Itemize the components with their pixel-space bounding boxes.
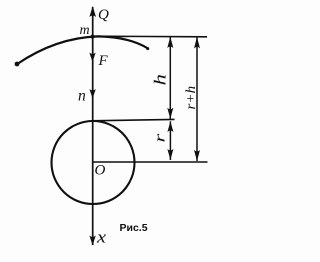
wire: main vertical axis line bbox=[92, 7, 94, 245]
arc: planet surface curve bbox=[17, 36, 149, 64]
wire: center horizontal reference line bbox=[92, 161, 208, 163]
svg-text:Q: Q bbox=[98, 7, 109, 23]
dot: arc right endpoint bbox=[146, 47, 149, 50]
svg-text:Рис.5: Рис.5 bbox=[120, 222, 148, 234]
svg-text:r+h: r+h bbox=[183, 86, 198, 110]
svg-text:O: O bbox=[95, 163, 106, 179]
dimension line r (vertical) bbox=[169, 121, 171, 160]
dimension line h (vertical) bbox=[169, 37, 171, 119]
svg-text:n: n bbox=[78, 88, 86, 105]
svg-text:x: x bbox=[96, 228, 107, 247]
svg-text:r: r bbox=[152, 133, 168, 142]
svg-text:h: h bbox=[151, 74, 170, 85]
wire: top horizontal reference line bbox=[92, 35, 208, 38]
arrow F (down arrowhead) bbox=[89, 53, 95, 63]
arrow x (down arrowhead at bottom) bbox=[89, 236, 95, 246]
node m: junction dot on axis bbox=[91, 35, 95, 39]
svg-text:F: F bbox=[98, 53, 109, 69]
wire: circle-top horizontal reference line bbox=[91, 119, 175, 120]
dimension line r+h (vertical) bbox=[196, 37, 198, 161]
dot: arc left endpoint blob bbox=[15, 62, 20, 67]
circle: planet bbox=[52, 121, 135, 204]
arrow Q (up arrowhead at top) bbox=[89, 6, 96, 17]
arrow n (down arrowhead) bbox=[89, 89, 95, 99]
svg-text:m: m bbox=[80, 23, 90, 38]
